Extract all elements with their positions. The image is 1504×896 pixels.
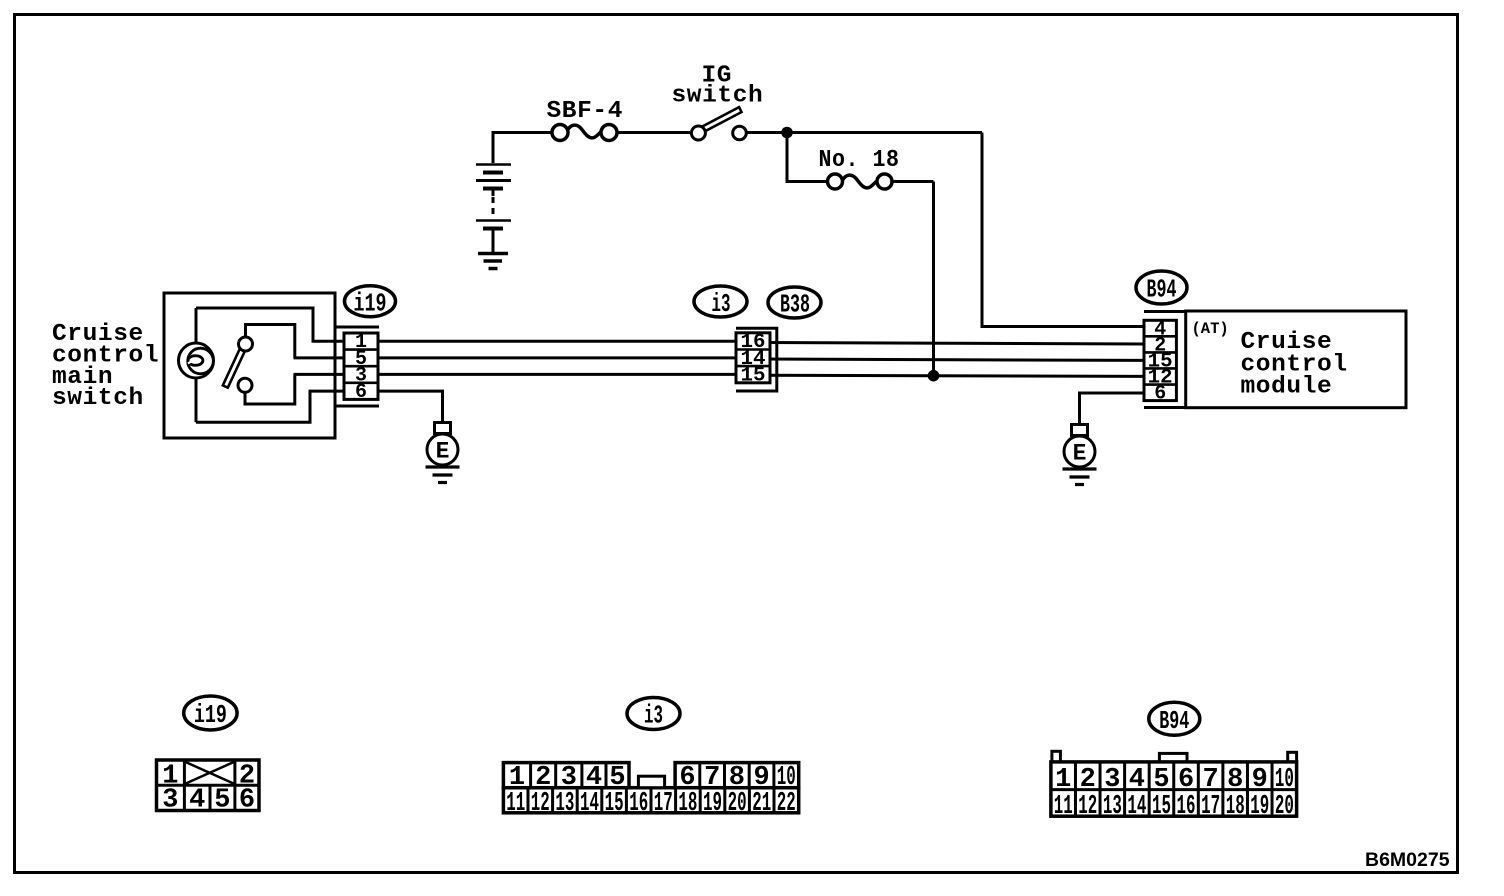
svg-text:switch: switch xyxy=(672,83,764,110)
svg-text:18: 18 xyxy=(678,789,697,819)
svg-text:B38: B38 xyxy=(780,290,810,320)
svg-text:i3: i3 xyxy=(644,701,663,731)
svg-text:20: 20 xyxy=(1275,792,1294,822)
svg-text:B94: B94 xyxy=(1147,275,1177,305)
svg-text:13: 13 xyxy=(1103,792,1122,822)
svg-text:16: 16 xyxy=(629,789,648,819)
svg-text:11: 11 xyxy=(1054,792,1073,822)
svg-text:6: 6 xyxy=(1154,383,1166,406)
svg-text:19: 19 xyxy=(703,789,722,819)
svg-text:4: 4 xyxy=(1129,765,1145,795)
svg-text:10: 10 xyxy=(1275,765,1294,795)
svg-text:SBF-4: SBF-4 xyxy=(547,98,624,125)
svg-text:14: 14 xyxy=(1127,792,1146,822)
svg-text:3: 3 xyxy=(1104,765,1120,795)
svg-text:(AT): (AT) xyxy=(1192,320,1229,338)
svg-text:20: 20 xyxy=(728,789,747,819)
svg-text:18: 18 xyxy=(1226,792,1245,822)
svg-text:7: 7 xyxy=(1203,765,1219,795)
svg-text:8: 8 xyxy=(1227,765,1243,795)
svg-text:17: 17 xyxy=(1201,792,1220,822)
svg-text:9: 9 xyxy=(1252,765,1268,795)
svg-text:17: 17 xyxy=(654,789,673,819)
svg-text:i19: i19 xyxy=(354,289,387,319)
svg-text:15: 15 xyxy=(741,364,766,387)
svg-text:11: 11 xyxy=(506,789,525,819)
svg-text:15: 15 xyxy=(605,789,624,819)
svg-text:19: 19 xyxy=(1250,792,1269,822)
svg-text:14: 14 xyxy=(580,789,599,819)
svg-text:15: 15 xyxy=(1152,792,1171,822)
svg-text:16: 16 xyxy=(1177,792,1196,822)
svg-text:i19: i19 xyxy=(194,700,227,730)
svg-text:22: 22 xyxy=(777,789,796,819)
svg-text:switch: switch xyxy=(52,385,144,412)
svg-text:No. 18: No. 18 xyxy=(819,147,900,174)
svg-text:B94: B94 xyxy=(1159,706,1189,736)
svg-text:1: 1 xyxy=(1055,765,1071,795)
svg-text:5: 5 xyxy=(1153,765,1169,795)
svg-text:13: 13 xyxy=(555,789,574,819)
svg-text:6: 6 xyxy=(239,786,255,816)
svg-text:E: E xyxy=(436,439,450,465)
svg-text:E: E xyxy=(1073,441,1087,467)
svg-text:12: 12 xyxy=(1078,792,1097,822)
svg-text:12: 12 xyxy=(531,789,550,819)
svg-text:B6M0275: B6M0275 xyxy=(1365,849,1450,871)
svg-text:2: 2 xyxy=(1080,765,1096,795)
svg-text:6: 6 xyxy=(355,381,367,404)
svg-text:6: 6 xyxy=(1178,765,1194,795)
svg-text:3: 3 xyxy=(162,786,178,816)
svg-text:21: 21 xyxy=(752,789,771,819)
svg-text:5: 5 xyxy=(214,786,230,816)
svg-text:i3: i3 xyxy=(712,289,731,319)
svg-text:module: module xyxy=(1241,374,1333,401)
svg-text:4: 4 xyxy=(189,786,205,816)
